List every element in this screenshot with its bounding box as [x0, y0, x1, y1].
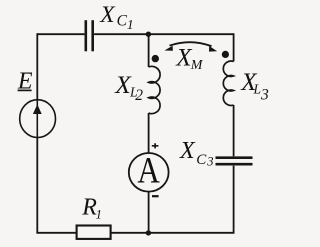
svg-text:M: M [190, 58, 204, 73]
svg-text:X: X [179, 138, 196, 164]
svg-text:A: A [137, 151, 160, 191]
svg-text:2: 2 [135, 87, 143, 104]
svg-text:3: 3 [206, 155, 213, 169]
svg-text:C: C [196, 152, 207, 168]
svg-text:1: 1 [127, 17, 134, 32]
svg-text:L: L [253, 82, 262, 97]
svg-text:X: X [99, 2, 116, 28]
svg-text:3: 3 [260, 86, 269, 103]
svg-text:1: 1 [96, 206, 103, 221]
